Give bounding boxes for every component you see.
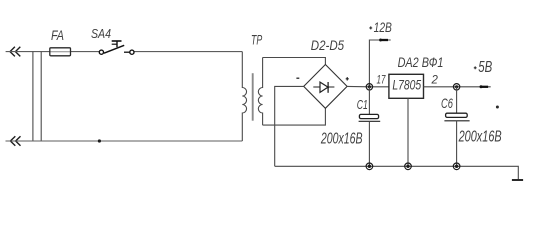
svg-text:5В: 5В	[478, 59, 492, 76]
wire secondary bottom to bridge	[263, 108, 326, 125]
rail node regulator gnd	[405, 163, 412, 170]
wire bridge minus to ground rail	[275, 86, 304, 166]
capacitor C6	[441, 87, 502, 167]
plus sign	[346, 77, 349, 80]
node 1 (bridge+ / C1 / regulator in)	[366, 84, 372, 90]
regulator DA2	[377, 54, 444, 98]
wire regulator ground pin	[407, 98, 409, 166]
svg-text:17: 17	[377, 74, 386, 86]
connector arrow X1 (top left)	[10, 47, 20, 57]
fuse FA	[50, 27, 71, 56]
svg-text:C6: C6	[441, 95, 453, 111]
rail node C6	[453, 163, 460, 170]
wire bridge plus to regulator input	[347, 85, 389, 87]
svg-text:D2-D5: D2-D5	[311, 37, 344, 53]
junction dot on bottom mains	[98, 139, 101, 142]
wire secondary top to bridge	[263, 58, 326, 65]
wire vertical drop A	[32, 52, 34, 141]
stray speck	[496, 106, 499, 109]
transformer secondary winding	[258, 58, 262, 126]
svg-text:DA2 ВФ1: DA2 ВФ1	[398, 54, 444, 70]
svg-text:12В: 12В	[374, 19, 392, 35]
svg-text:L7805: L7805	[392, 77, 421, 93]
wire ground rail	[275, 166, 519, 179]
switch SA4	[91, 26, 134, 54]
svg-text:SA4: SA4	[91, 26, 111, 41]
connector arrow X2 (bottom left)	[10, 136, 20, 146]
svg-text:200x16В: 200x16В	[320, 131, 363, 148]
+5V arrow	[474, 59, 493, 88]
bridge rectifier D2-D5	[296, 37, 348, 108]
svg-text:TP: TP	[251, 31, 263, 47]
rail node C1	[366, 163, 373, 170]
minus sign	[296, 77, 299, 79]
svg-text:2: 2	[431, 74, 439, 86]
wire top mains	[6, 51, 243, 53]
ground symbol	[512, 179, 523, 181]
wire bottom mains	[6, 140, 243, 142]
wire regulator output	[424, 86, 491, 88]
node 2 (C6 / +5V)	[453, 84, 459, 90]
capacitor C1	[320, 87, 380, 167]
wire vertical drop B	[40, 52, 42, 141]
svg-text:200x16В: 200x16В	[458, 129, 502, 146]
svg-text:FA: FA	[51, 27, 64, 43]
+12V output wire and arrow	[369, 19, 392, 87]
transformer primary winding	[242, 52, 246, 141]
svg-text:C1: C1	[357, 98, 368, 112]
transformer core	[252, 73, 254, 121]
